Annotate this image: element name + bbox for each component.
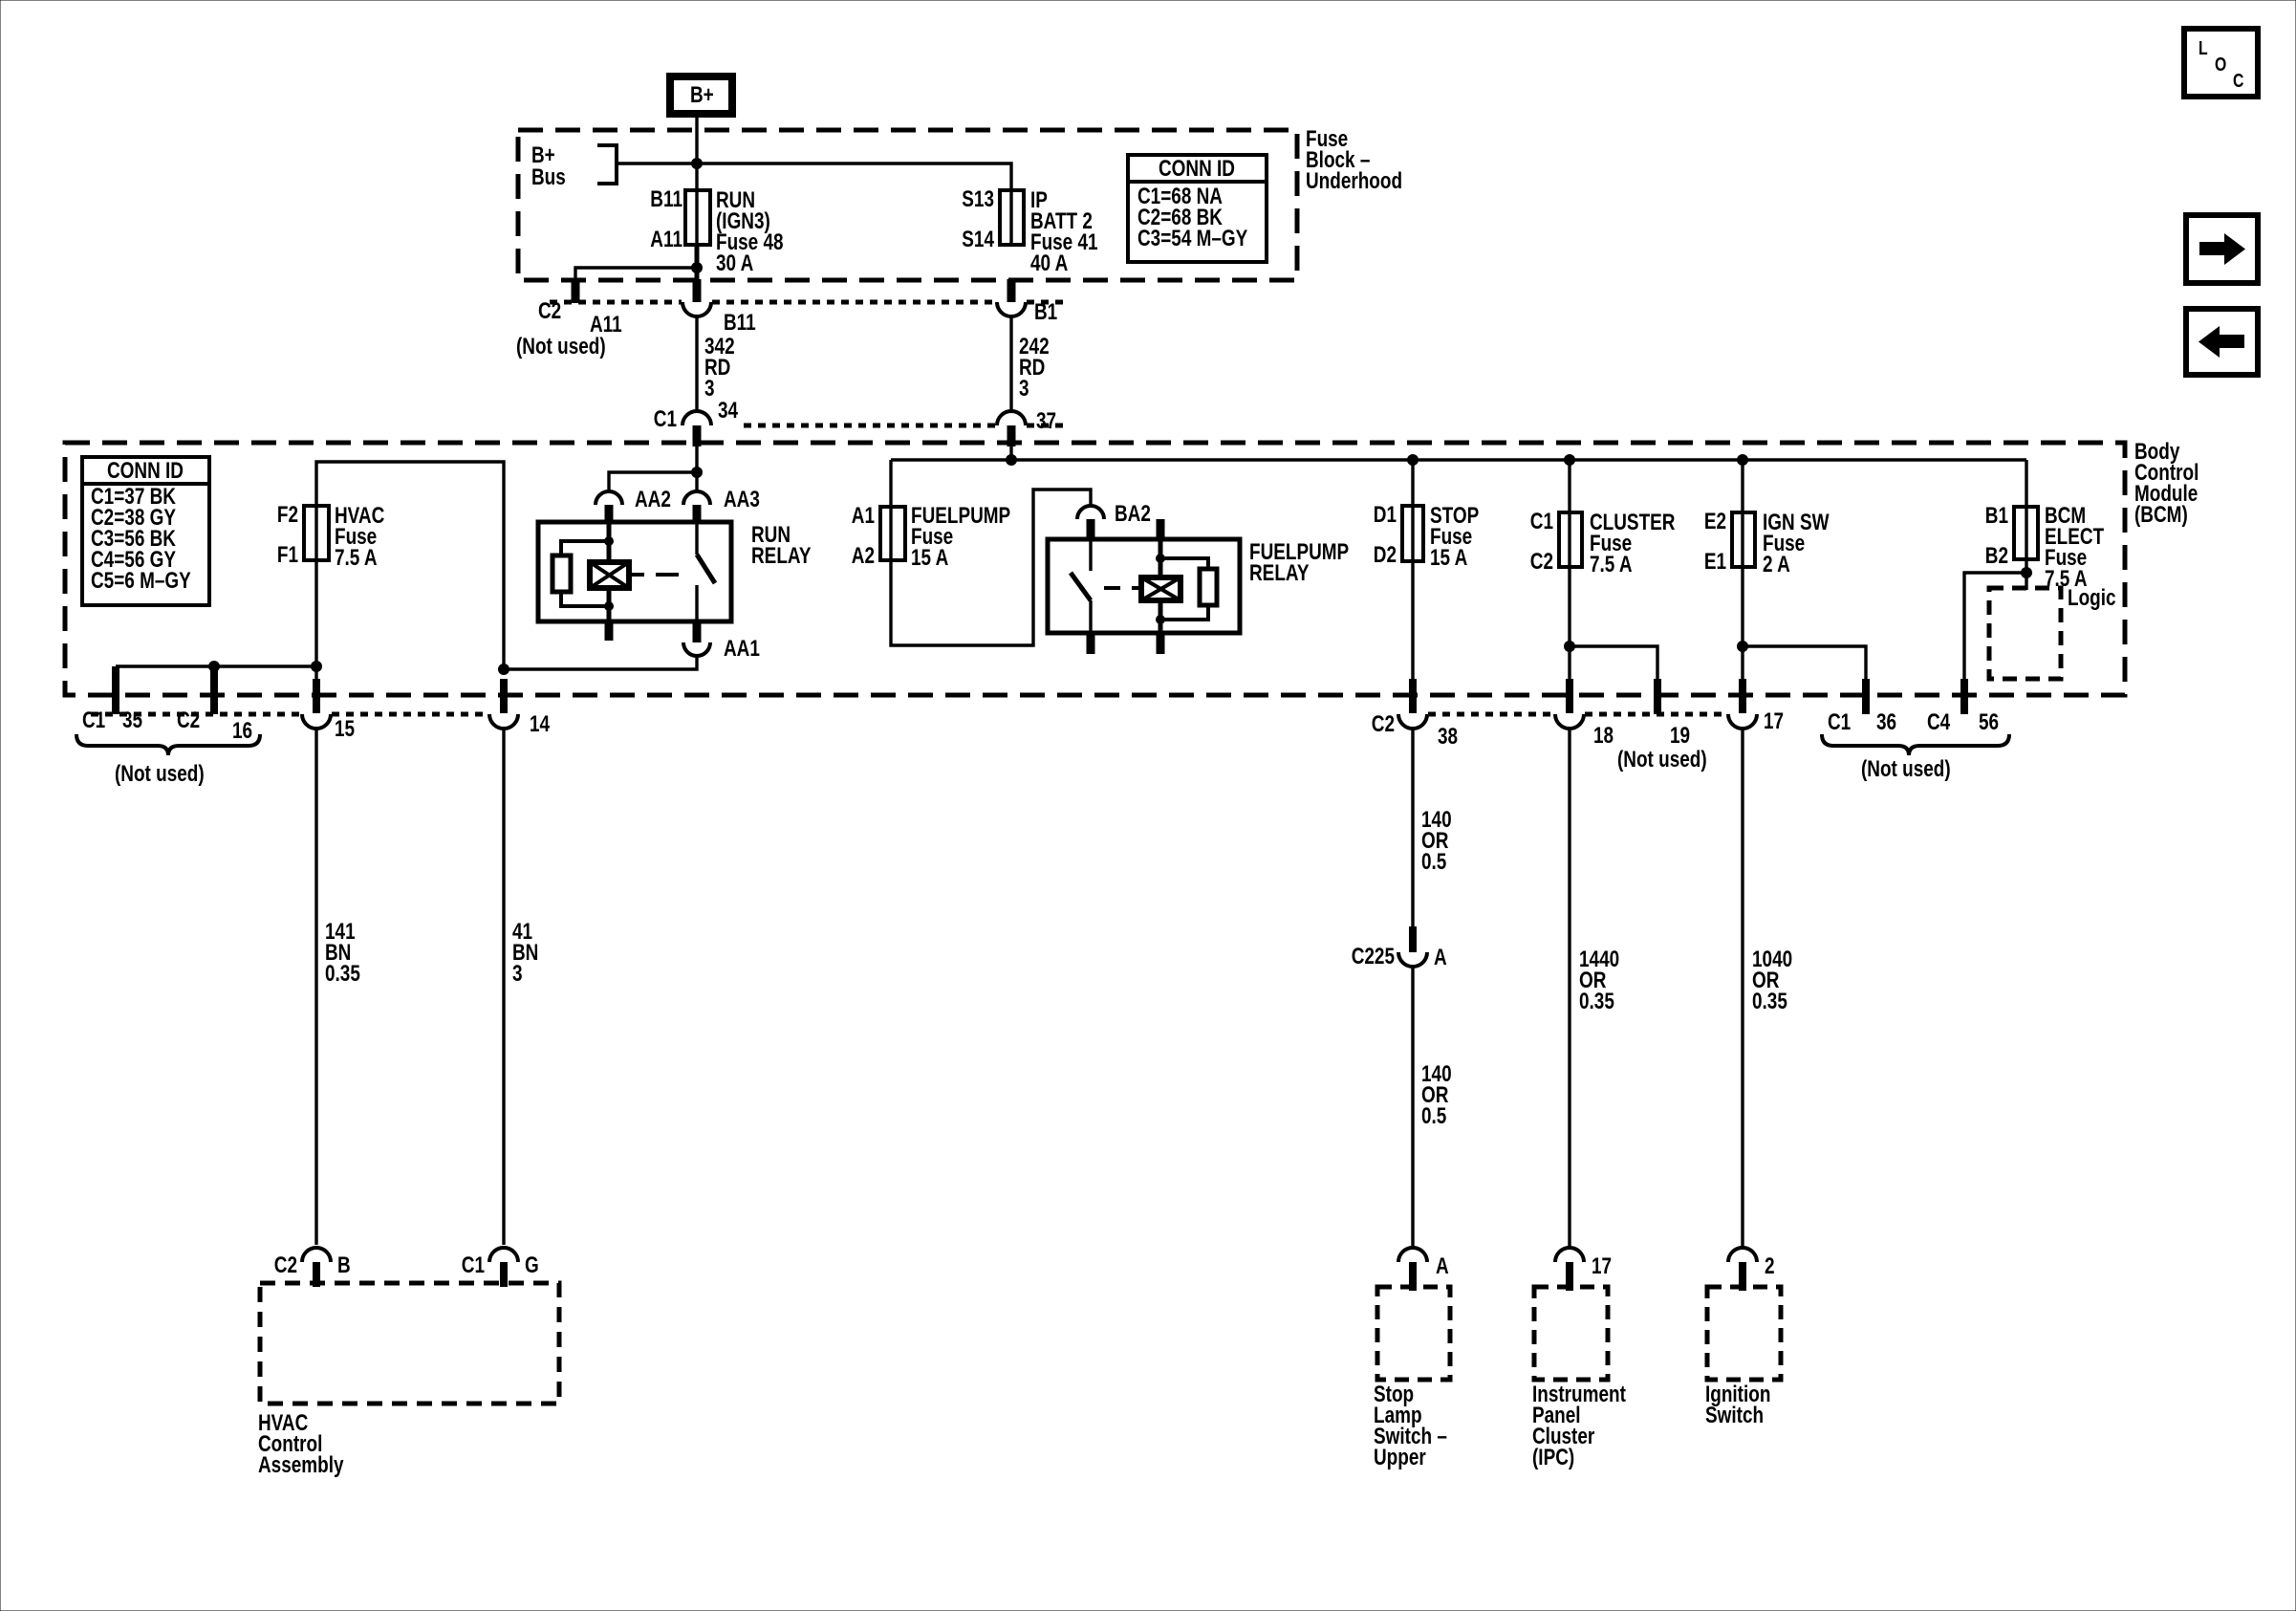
svg-text:(IPC): (IPC) (1532, 1444, 1574, 1470)
junction pin 36 branch (1737, 641, 1748, 652)
relay RUN RELAY box (538, 521, 812, 621)
switch fuelpump relay (1071, 539, 1091, 654)
dashed link fuelpump relay (1104, 586, 1120, 590)
connector C1 G HVAC (462, 1248, 539, 1287)
svg-text:18: 18 (1593, 722, 1614, 749)
svg-text:B2: B2 (1985, 542, 2008, 569)
svg-text:2: 2 (1765, 1252, 1775, 1279)
connector C2 38 (1372, 710, 1458, 750)
svg-text:D2: D2 (1374, 541, 1397, 568)
svg-text:A: A (1434, 944, 1447, 970)
svg-text:15: 15 (335, 715, 355, 742)
wire 41 BN 3 (504, 729, 538, 1245)
fuse 48 RUN (IGN3) 30 A (650, 185, 783, 276)
svg-text:Assembly: Assembly (258, 1451, 344, 1478)
wire 141 BN 0.35 (316, 729, 360, 1245)
svg-text:Underhood: Underhood (1306, 167, 1402, 194)
wire main BCM feed (1009, 446, 1012, 460)
svg-text:(Not used): (Not used) (516, 333, 606, 359)
wire 140 OR 0.5 upper (1413, 729, 1452, 926)
svg-text:A1: A1 (852, 502, 875, 529)
logic dashed box (1989, 584, 2116, 679)
svg-text:2 A: 2 A (1763, 551, 1790, 577)
svg-text:34: 34 (718, 397, 738, 424)
wire to AA2 (609, 472, 697, 492)
wire fuelpump fuse branch (889, 460, 892, 562)
svg-text:C2: C2 (1372, 710, 1395, 737)
svg-text:E1: E1 (1704, 548, 1726, 575)
svg-text:17: 17 (1592, 1252, 1612, 1279)
wire fuelpump loop to BA2 (891, 490, 1091, 645)
brace not used right (1822, 734, 2009, 755)
svg-text:C1: C1 (462, 1252, 485, 1278)
junction coil top (604, 536, 614, 546)
svg-text:AA3: AA3 (724, 486, 760, 512)
resistor run relay (552, 555, 571, 592)
wire AA1 to pin 14 (504, 656, 697, 669)
label HVAC Control Assembly (258, 1409, 344, 1478)
connector B1 (997, 279, 1057, 325)
connector B11 (682, 302, 756, 336)
wire 1440 OR 0.35 (1570, 729, 1619, 1248)
junction B+ bus (691, 158, 703, 169)
wire ign sw fuse down (1741, 567, 1744, 681)
connector pin 14 (489, 679, 550, 737)
svg-text:AA1: AA1 (724, 635, 760, 662)
svg-text:A: A (1436, 1252, 1449, 1279)
label C2 A11 (Not used) (516, 297, 622, 359)
label Instrument Panel Cluster (IPC) (1532, 1381, 1626, 1470)
pin C2 16 stub (210, 666, 218, 714)
svg-text:C2: C2 (274, 1252, 297, 1278)
pin C1 35 stub (112, 666, 119, 714)
connector pin 18 (1555, 679, 1614, 749)
stop lamp switch dashed box (1377, 1287, 1450, 1380)
power symbol B+ (670, 76, 732, 114)
label Stop Lamp Switch Upper (1374, 1381, 1447, 1470)
connector BA2 (1077, 500, 1151, 541)
conn id table BCM (82, 457, 209, 605)
wire 342 RD 3 (697, 316, 735, 412)
instrument panel cluster dashed box (1534, 1287, 1608, 1380)
svg-text:7.5 A: 7.5 A (1590, 551, 1633, 577)
svg-text:O: O (2215, 54, 2226, 75)
wire pin 56 not used (1964, 573, 2026, 681)
svg-text:14: 14 (530, 710, 550, 737)
svg-text:30 A: 30 A (716, 250, 754, 276)
svg-text:B1: B1 (1034, 298, 1057, 325)
svg-text:36: 36 (1876, 708, 1896, 735)
svg-text:16: 16 (232, 717, 252, 744)
svg-text:E2: E2 (1704, 508, 1726, 534)
svg-text:C1: C1 (654, 405, 677, 432)
svg-text:Bus: Bus (531, 163, 566, 190)
dashed link run relay (631, 573, 644, 577)
junction pin 19 branch (1564, 641, 1575, 652)
fuse BCM ELECT 7.5 A (1985, 460, 2104, 592)
ignition switch dashed box (1707, 1287, 1781, 1380)
svg-text:0.35: 0.35 (325, 960, 360, 987)
junction fp coil top (1156, 554, 1165, 563)
svg-text:BA2: BA2 (1115, 500, 1151, 527)
svg-text:F1: F1 (277, 541, 298, 568)
junction pin 56 branch (2021, 567, 2032, 578)
wire B+ bus to IP fuse (617, 163, 1011, 247)
relay coil fuelpump (1141, 519, 1180, 654)
node B+ Bus (531, 142, 617, 190)
label Fuse Block - Underhood (1306, 125, 1402, 194)
svg-text:C1: C1 (1828, 708, 1851, 735)
wire A11 stub not used (575, 268, 697, 282)
svg-text:(Not used): (Not used) (1861, 755, 1951, 782)
wire pin 19 not used (1570, 646, 1657, 681)
resistor fuelpump relay (1160, 558, 1217, 620)
wire cluster fuse down (1568, 567, 1570, 681)
svg-text:C: C (2233, 70, 2243, 91)
wire fuse 48 to connector B11 (695, 245, 700, 281)
wire pin 34 to run relay (695, 446, 698, 492)
relay FUELPUMP RELAY box (1048, 538, 1349, 633)
junction feed 37 (1006, 454, 1017, 466)
labels C1 35 C2 16 (82, 707, 252, 744)
wire B+ to fuse block (695, 118, 698, 247)
fuse IGN SW 2 A (1704, 460, 1830, 577)
connector row BCM right dotted (1428, 712, 1554, 717)
connector AA3 (683, 486, 760, 523)
fuse CLUSTER 7.5 A (1530, 460, 1676, 577)
label 19 (Not used) (1617, 722, 1707, 773)
junction feed stop (1407, 454, 1419, 466)
wire resistor top (561, 541, 609, 556)
connector 17 IPC (1555, 1248, 1612, 1291)
svg-text:C2: C2 (1530, 548, 1553, 575)
junction feed cluster (1564, 454, 1575, 466)
wire to HVAC fuse (316, 462, 504, 669)
wire bcm elect fuse down (2025, 559, 2027, 590)
svg-text:A11: A11 (650, 226, 682, 252)
svg-text:AA2: AA2 (635, 486, 671, 512)
svg-text:D1: D1 (1374, 501, 1397, 528)
junction AA2 AA3 (691, 467, 703, 478)
svg-text:0.5: 0.5 (1421, 1102, 1446, 1129)
svg-text:B1: B1 (1985, 502, 2008, 529)
svg-text:F2: F2 (277, 501, 298, 528)
fuse 41 IP BATT 2 40 A (962, 185, 1097, 276)
svg-text:B+: B+ (690, 81, 714, 108)
connector row BCM left dotted (91, 712, 301, 717)
junction coil bottom (604, 601, 614, 611)
brace not used left (76, 734, 260, 755)
svg-text:17: 17 (1764, 708, 1784, 734)
svg-text:0.35: 0.35 (1752, 988, 1787, 1014)
svg-text:CONN ID: CONN ID (107, 457, 184, 484)
junction pin 14 branch (498, 664, 509, 675)
svg-text:B11: B11 (724, 309, 756, 336)
fuse STOP 15 A (1374, 460, 1479, 571)
connector AA2 (596, 486, 671, 523)
svg-text:0.35: 0.35 (1579, 988, 1614, 1014)
svg-text:(Not used): (Not used) (1617, 746, 1707, 773)
label Ignition Switch (1705, 1381, 1770, 1428)
wire BCM left unused pins (116, 664, 316, 667)
wire 1040 OR 0.35 (1743, 729, 1792, 1248)
svg-text:15 A: 15 A (1430, 544, 1468, 571)
HVAC control assembly dashed box (260, 1283, 559, 1404)
label Body Control Module (BCM) (2134, 438, 2199, 528)
arrow previous page (2186, 309, 2258, 375)
relay coil run relay (590, 523, 629, 641)
svg-text:S14: S14 (962, 226, 994, 252)
switch run relay (697, 523, 715, 642)
svg-text:RELAY: RELAY (751, 542, 812, 569)
svg-text:(Not used): (Not used) (115, 760, 205, 787)
svg-text:7.5 A: 7.5 A (335, 544, 378, 571)
fuse HVAC 7.5 A (277, 501, 385, 571)
connector A stop lamp switch (1398, 1248, 1449, 1291)
svg-text:35: 35 (122, 707, 142, 733)
svg-text:15 A: 15 A (911, 544, 949, 571)
svg-text:Logic: Logic (2068, 584, 2116, 611)
svg-text:C5=6 M–GY: C5=6 M–GY (91, 567, 191, 594)
svg-text:A2: A2 (852, 542, 875, 569)
connector C2 B HVAC (274, 1248, 351, 1287)
connector row C1 dotted line (744, 424, 996, 428)
fuse block - underhood dashed box (518, 130, 1297, 280)
svg-text:C3=54 M–GY: C3=54 M–GY (1137, 225, 1248, 251)
connector 2 ignition switch (1728, 1248, 1775, 1291)
junction fp coil bottom (1156, 615, 1165, 624)
connector pin 15 (302, 679, 355, 742)
connector C225 A (1352, 926, 1447, 970)
svg-text:C1: C1 (82, 707, 105, 733)
junction A11 branch (691, 262, 703, 273)
svg-text:B11: B11 (650, 185, 682, 212)
junction feed ign sw (1737, 454, 1748, 466)
svg-text:0.5: 0.5 (1421, 848, 1446, 875)
connector row C2 dotted line (550, 300, 682, 305)
svg-text:37: 37 (1036, 407, 1056, 434)
svg-text:C225: C225 (1352, 943, 1395, 969)
junction left pins (311, 661, 322, 672)
wire HVAC fuse to pin 15 (314, 560, 317, 681)
svg-text:3: 3 (704, 375, 715, 402)
svg-text:3: 3 (512, 960, 523, 987)
connector pin 17 bcm (1728, 679, 1784, 734)
body control module dashed box (65, 443, 2125, 695)
svg-text:Switch: Switch (1705, 1402, 1764, 1428)
svg-text:B: B (337, 1252, 351, 1278)
wire resistor bottom (561, 593, 609, 606)
labels C1 36 C4 56 (1828, 708, 1999, 735)
arrow next page (2186, 215, 2258, 283)
svg-text:19: 19 (1670, 722, 1690, 749)
svg-text:38: 38 (1438, 723, 1458, 750)
svg-text:G: G (525, 1252, 539, 1278)
svg-text:C2: C2 (177, 707, 200, 733)
loc reference box (2184, 29, 2258, 97)
wire 242 RD 3 (1011, 316, 1050, 412)
svg-text:L: L (2199, 37, 2208, 58)
connector AA1 (683, 635, 760, 662)
svg-text:56: 56 (1979, 708, 1999, 735)
svg-text:3: 3 (1019, 375, 1029, 402)
connector C1 pin 34 (654, 397, 738, 446)
svg-text:Upper: Upper (1374, 1444, 1426, 1470)
svg-text:CONN ID: CONN ID (1159, 155, 1235, 182)
connector pin 37 (997, 407, 1056, 446)
wire pin 36 not used (1743, 646, 1866, 681)
conn id table fuse block (1128, 155, 1267, 262)
svg-text:40 A: 40 A (1030, 250, 1069, 276)
svg-text:C4: C4 (1927, 708, 1950, 735)
svg-text:S13: S13 (962, 185, 994, 212)
svg-text:RELAY: RELAY (1249, 559, 1310, 586)
wire 140 OR 0.5 lower (1413, 967, 1452, 1248)
svg-text:(BCM): (BCM) (2134, 501, 2188, 528)
svg-text:C1: C1 (1530, 508, 1553, 534)
fuse FUELPUMP 15 A (852, 502, 1010, 571)
wire stop fuse to connector 38 (1411, 561, 1414, 681)
